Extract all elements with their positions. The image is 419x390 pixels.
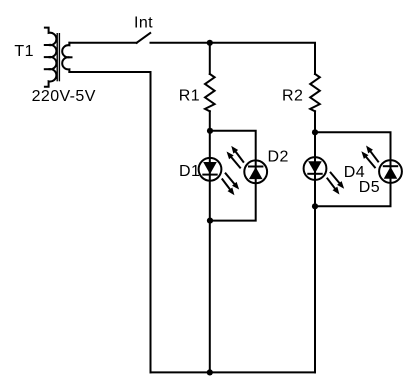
svg-text:T1: T1	[14, 43, 33, 60]
svg-text:Int: Int	[134, 14, 153, 31]
svg-text:R1: R1	[179, 88, 200, 105]
svg-text:R2: R2	[282, 88, 303, 105]
svg-text:D1: D1	[179, 163, 200, 180]
svg-text:D2: D2	[268, 149, 289, 166]
svg-text:D5: D5	[359, 179, 380, 196]
svg-text:220V-5V: 220V-5V	[32, 88, 96, 105]
